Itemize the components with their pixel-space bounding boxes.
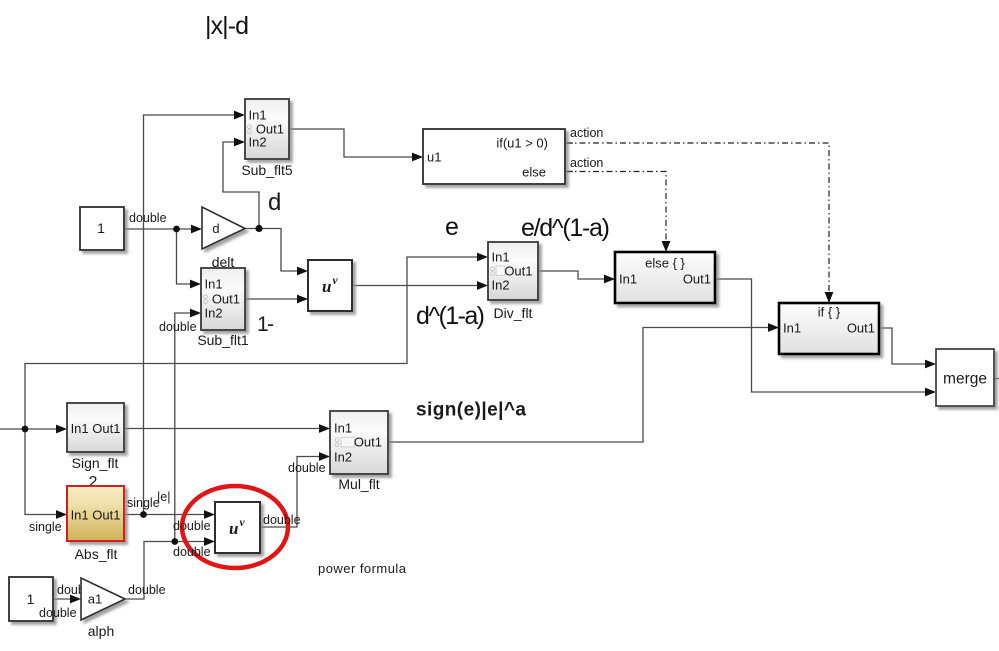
svg-text:d: d [212,221,219,236]
svg-text:Mul_flt: Mul_flt [338,476,379,492]
svg-text:else: else [522,165,546,180]
svg-text:double: double [128,583,166,597]
svg-text:power formula: power formula [318,561,407,576]
svg-text:double: double [129,211,167,225]
svg-text:1: 1 [97,220,105,236]
svg-text:In1: In1 [619,272,637,287]
svg-text:else { }: else { } [645,256,685,271]
svg-text:Sign_flt: Sign_flt [72,455,119,471]
svg-text:In1: In1 [334,421,352,436]
svg-text:double: double [173,519,211,533]
svg-text:In1: In1 [783,321,801,336]
svg-text:|e|: |e| [157,490,170,504]
svg-text:double: double [39,606,77,620]
svg-text:e/d^(1-a): e/d^(1-a) [521,214,610,242]
svg-text:e: e [445,213,459,241]
svg-text:v: v [240,517,246,529]
svg-text:action: action [570,126,603,140]
svg-text:1-: 1- [257,313,274,336]
svg-text:action: action [570,156,603,170]
svg-text:double: double [263,513,301,527]
svg-text:Sub_flt5: Sub_flt5 [241,162,293,178]
svg-text:In1: In1 [205,277,223,292]
svg-text:merge: merge [943,371,987,388]
svg-text:|x|-d: |x|-d [205,12,249,40]
svg-text:if(u1 > 0): if(u1 > 0) [496,136,548,151]
svg-text:a1: a1 [88,592,102,607]
svg-text:single: single [127,496,160,510]
svg-text:Out1: Out1 [212,292,240,307]
svg-text:alph: alph [88,623,114,639]
svg-text:sign(e)|e|^a: sign(e)|e|^a [416,400,526,421]
svg-text:d^(1-a): d^(1-a) [416,302,485,330]
svg-text:In1: In1 [492,250,510,265]
svg-text:double: double [173,545,211,559]
svg-text:Out1: Out1 [847,321,875,336]
svg-text:In2: In2 [249,135,267,150]
svg-text:In2: In2 [205,306,223,321]
svg-text:In1 Out1: In1 Out1 [71,508,121,523]
svg-text:double: double [288,461,326,475]
svg-text:In1 Out1: In1 Out1 [71,421,121,436]
svg-text:single: single [29,520,62,534]
svg-text:u1: u1 [427,150,441,165]
svg-text:v: v [333,275,339,287]
svg-text:double: double [159,320,197,334]
svg-text:u: u [322,277,331,296]
svg-text:d: d [268,189,281,216]
svg-text:In2: In2 [334,450,352,465]
svg-text:Sub_flt1: Sub_flt1 [197,332,249,348]
svg-text:Out1: Out1 [354,435,382,450]
svg-text:1: 1 [27,591,35,607]
svg-text:Abs_flt: Abs_flt [75,546,118,562]
svg-text:Div_flt: Div_flt [494,305,533,321]
svg-text:Out1: Out1 [683,272,711,287]
svg-text:if { }: if { } [818,305,841,320]
svg-text:In2: In2 [492,278,510,293]
svg-text:u: u [229,519,238,538]
svg-text:In1: In1 [249,108,267,123]
svg-text:Out1: Out1 [504,264,532,279]
